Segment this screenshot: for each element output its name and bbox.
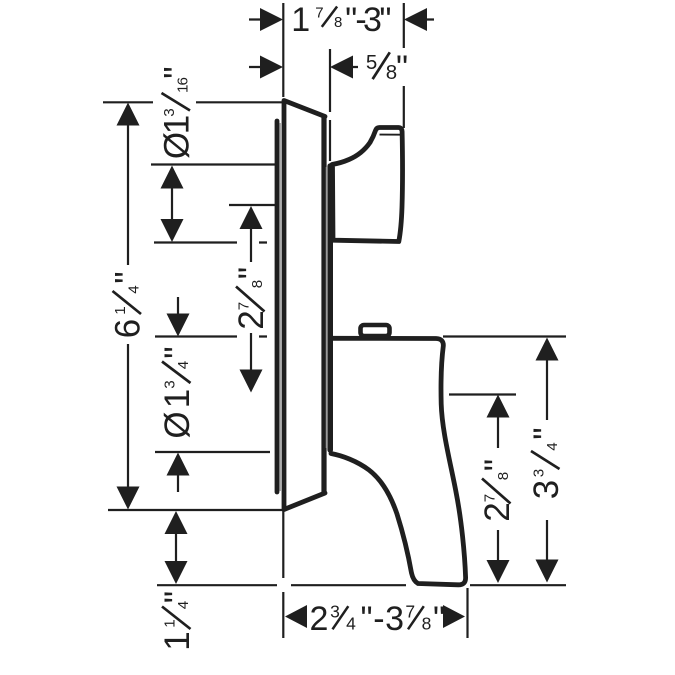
hub index tab [361,325,390,336]
svg-text:1: 1 [112,307,129,315]
dim 2-7/8 right line [497,417,499,562]
plate back highlight sliver [279,123,281,491]
svg-text:8: 8 [386,61,397,84]
svg-text:": " [433,600,444,638]
text dim 1-1/4in rotated [158,592,197,651]
svg-text:-: - [373,600,383,638]
dim 6-1/4 line [127,124,129,488]
escutcheon plate front face [321,117,326,494]
svg-text:7: 7 [405,602,414,622]
dim 3-3/4 bottom arrow [536,560,559,583]
svg-text:": " [158,347,197,358]
dim 2-3/4 to 3-7/8 right arrow [443,605,465,628]
dim dia 1-3/4 top arrow [177,297,179,316]
dim 2-7/8 left bottom arrow [240,370,263,393]
lower handle hub and lever outline [331,338,466,585]
text dim 2-7/8in right rotated [478,460,517,522]
dim 1-7/8 to 3 right arrow [404,8,427,31]
svg-text:2: 2 [478,503,517,521]
svg-text:8: 8 [422,614,431,634]
dim 6-1/4 top arrow [117,103,140,126]
extension line knob centre y205 [229,204,276,206]
svg-text:Ø: Ø [158,412,197,439]
svg-text:2: 2 [232,311,271,329]
svg-text:4: 4 [175,361,192,369]
svg-text:8: 8 [495,472,512,480]
text dim 2-3/4in to 3-7/8in [310,600,445,638]
svg-text:": " [527,428,566,439]
svg-text:3: 3 [363,1,381,39]
extension line hub top right y336.5 [443,335,566,337]
dim dia 1-3/16 double arrow [171,185,173,222]
svg-text:7: 7 [482,494,499,502]
text dim 3-3/4in rotated [527,428,566,499]
svg-text:4: 4 [346,614,356,634]
top handle (diverter knob) outline [332,128,403,242]
svg-text:7: 7 [236,302,253,310]
dim 3-3/4 top arrow [536,338,559,361]
svg-text:3: 3 [527,481,566,499]
extension line handle front x403.5 [403,3,405,128]
text dim 2-7/8in left rotated [232,268,271,330]
trim sleeve band [327,166,333,450]
dim dia 1-3/4 bottom arrow [177,474,179,492]
extension line bottom left x283 [282,511,284,638]
svg-text:": " [158,592,197,603]
svg-text:": " [109,272,148,283]
svg-text:5: 5 [366,51,377,74]
svg-text:3: 3 [385,600,403,638]
extension line wall plane x283 top [282,3,284,97]
dim 2-7/8 left line [250,228,252,371]
top handle inner top-face line [380,134,402,136]
svg-text:": " [360,600,371,638]
extension line plate top y102 [103,101,284,103]
dim 1-7/8 to 3 leaders [249,18,434,20]
extension line plate bottom y510 [108,509,283,511]
svg-text:4: 4 [126,286,143,294]
extension line lever bottom y585 [157,584,566,586]
svg-text:": " [158,67,197,78]
svg-text:3: 3 [162,381,179,389]
svg-text:1: 1 [158,632,197,650]
svg-text:1: 1 [162,620,179,628]
svg-text:6: 6 [109,320,148,338]
svg-text:": " [232,268,271,279]
svg-text:7: 7 [315,4,323,21]
dim 5/8 left arrow [260,56,283,79]
extension line knob top y164.5 [151,163,276,165]
svg-text:8: 8 [249,280,266,288]
svg-text:2: 2 [310,600,328,638]
extension line plate front x330 [329,49,331,161]
text dim 5/8in [366,49,407,87]
svg-text:": " [478,460,517,471]
text dim 1-7/8in to 3in [291,1,390,39]
text dim dia 1-3/4in rotated [158,347,197,438]
svg-text:1: 1 [291,1,309,39]
extension line bottom right x467.5 [466,588,468,638]
svg-text:3: 3 [330,602,339,622]
escutcheon plate corner edge with top and bottom slants [284,101,325,510]
svg-text:": " [379,1,390,39]
svg-text:3: 3 [531,469,548,477]
svg-text:Ø: Ø [158,132,197,159]
svg-text:3: 3 [161,109,178,117]
svg-text:1: 1 [158,116,197,134]
sleeve highlight sliver [325,167,327,448]
dim 5/8 right arrow [330,56,353,79]
dim 2-7/8 right top arrow [487,395,510,418]
extension line hub top left y336.5 [155,335,267,337]
dim 1-7/8 to 3 left arrow [260,8,283,31]
dim 2-7/8 right bottom arrow [487,560,510,583]
dim 5/8 leaders [249,66,358,68]
svg-text:8: 8 [334,14,342,31]
svg-text:4: 4 [544,443,561,451]
extension line knob bottom y242.5 [154,241,267,243]
dim 3-3/4 line [546,360,548,560]
svg-text:1: 1 [158,390,197,408]
text dim dia 1-3/16in rotated [158,67,197,159]
escutcheon plate back edge [275,121,280,492]
text dim 6-1/4in rotated [109,272,148,338]
dim 2-3/4 to 3-7/8 left arrow [285,605,307,628]
dim 2-7/8 left top arrow [240,206,263,229]
svg-text:16: 16 [175,78,192,93]
extension line hub centre right y394.5 [449,393,516,395]
extension line hub bottom y452 [155,451,270,453]
svg-text:": " [396,49,407,87]
dim 6-1/4 bottom arrow [117,487,140,510]
dim 1-1/4 double arrow [175,532,177,563]
